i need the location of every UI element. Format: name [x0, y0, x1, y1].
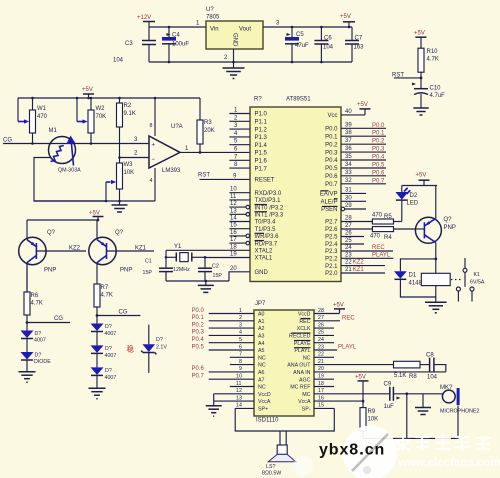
svg-text:VccD: VccD: [298, 312, 311, 318]
svg-text:NC: NC: [258, 385, 266, 391]
svg-text:18: 18: [230, 244, 237, 250]
ground mic: [415, 394, 431, 415]
svg-text:7805: 7805: [206, 15, 220, 21]
svg-text:XTAL1: XTAL1: [255, 256, 274, 262]
svg-text:6V/5A: 6V/5A: [470, 280, 485, 286]
svg-text:MICROPHONE2: MICROPHONE2: [440, 409, 479, 415]
svg-text:XTAL2: XTAL2: [255, 249, 274, 255]
capacitor C4: [162, 26, 189, 64]
svg-text:P0.4: P0.4: [372, 155, 385, 161]
svg-text:20K: 20K: [204, 128, 215, 134]
red net labels P0.0-P0.7: [372, 123, 385, 185]
svg-text:12: 12: [230, 201, 237, 207]
svg-text:P0.0: P0.0: [192, 308, 205, 314]
potentiometer W3 10K: [117, 156, 135, 201]
svg-text:D?: D?: [35, 353, 42, 359]
svg-text:C2: C2: [212, 264, 219, 270]
svg-text:P0.2: P0.2: [192, 322, 205, 328]
svg-text:C5: C5: [296, 32, 304, 38]
svg-text:VccD: VccD: [258, 392, 271, 398]
svg-text:100uF: 100uF: [172, 42, 189, 48]
svg-text:P0.2: P0.2: [325, 142, 338, 148]
wire XTAL1 pin19: [205, 257, 250, 259]
svg-text:P0.5: P0.5: [372, 163, 385, 169]
svg-text:A6: A6: [258, 370, 265, 376]
svg-text:4: 4: [150, 178, 153, 184]
op-amp U?A LM393: [134, 97, 189, 201]
svg-text:C6: C6: [324, 36, 332, 42]
svg-text:15: 15: [318, 403, 324, 409]
svg-text:TXD/P3.1: TXD/P3.1: [255, 198, 282, 204]
svg-text:R2: R2: [124, 103, 132, 109]
svg-text:R6: R6: [31, 293, 39, 299]
power +5V mic section: [355, 375, 369, 403]
svg-text:36: 36: [345, 146, 352, 152]
svg-text:P0.3: P0.3: [192, 330, 205, 336]
svg-text:KZ1: KZ1: [135, 246, 147, 252]
svg-text:PLAYL: PLAYL: [294, 348, 310, 354]
svg-text:10K: 10K: [368, 417, 379, 423]
resistor R8 5.1K: [394, 361, 430, 380]
svg-text:C8: C8: [426, 353, 434, 359]
svg-text:INT0 /P3.2: INT0 /P3.2: [255, 205, 284, 211]
svg-text:23: 23: [318, 344, 324, 350]
svg-text:P1.5: P1.5: [255, 151, 268, 157]
svg-text:−: −: [152, 157, 156, 163]
watermark small white circle: [293, 456, 313, 476]
svg-text:P0.4: P0.4: [192, 337, 205, 343]
svg-text:R9: R9: [368, 409, 376, 415]
svg-text:23: 23: [345, 252, 352, 258]
wire op-amp output to MCU pin6: [180, 151, 250, 153]
svg-text:5.1K: 5.1K: [394, 373, 406, 379]
wire emitter rail: [27, 219, 98, 221]
svg-text:4.7K: 4.7K: [101, 293, 113, 299]
wire 7805 gnd pin: [233, 49, 235, 62]
svg-text:WR/P3.6: WR/P3.6: [255, 234, 280, 240]
svg-text:C9: C9: [384, 382, 392, 388]
svg-text:REC: REC: [299, 319, 310, 325]
svg-text:P0.6: P0.6: [325, 174, 338, 180]
svg-text:C4: C4: [172, 33, 180, 39]
svg-text:39: 39: [345, 122, 352, 128]
svg-text:8Ω0.5W: 8Ω0.5W: [262, 471, 281, 477]
svg-text:K1: K1: [474, 272, 481, 278]
svg-text:JP7: JP7: [255, 301, 266, 307]
svg-text:W3: W3: [124, 162, 134, 168]
svg-text:20: 20: [318, 366, 324, 372]
microphone MK? MICROPHONE2: [440, 385, 479, 415]
svg-text:11: 11: [230, 194, 237, 200]
svg-text:29: 29: [345, 203, 352, 209]
resistor R9 10K: [360, 401, 378, 438]
svg-text:GND: GND: [255, 270, 269, 276]
svg-text:EA/VP: EA/VP: [320, 192, 338, 198]
svg-text:4007: 4007: [105, 375, 117, 381]
svg-text:LED: LED: [407, 201, 419, 207]
diode D1 4148: [394, 271, 436, 297]
resistor R6 4.7K: [24, 263, 43, 331]
svg-text:P0.2: P0.2: [372, 139, 385, 145]
svg-text:A4: A4: [258, 341, 265, 347]
svg-text:P0.0: P0.0: [325, 127, 338, 133]
svg-text:104: 104: [427, 375, 438, 381]
svg-text:12: 12: [236, 388, 242, 394]
svg-text:W1: W1: [37, 106, 47, 112]
capacitor C3: [113, 27, 156, 64]
svg-text:+5V: +5V: [357, 102, 368, 108]
isd left pin labels: [258, 312, 271, 413]
svg-text:PLAYE: PLAYE: [294, 341, 311, 347]
wire +5V top rail right: [402, 185, 437, 187]
regulator U? 7805: [196, 7, 280, 61]
svg-text:+5V: +5V: [414, 31, 425, 37]
svg-text:P0.6: P0.6: [192, 366, 205, 372]
svg-text:A0: A0: [258, 312, 265, 318]
svg-text:P1.2: P1.2: [255, 127, 268, 133]
svg-text:Q?: Q?: [444, 217, 453, 223]
svg-text:R4: R4: [384, 235, 392, 241]
svg-text:D?: D?: [105, 368, 112, 374]
diode D? 4007 #1 (right chain): [91, 324, 117, 346]
svg-text:8: 8: [150, 123, 153, 129]
svg-text:P0.3: P0.3: [325, 150, 338, 156]
svg-text:22: 22: [345, 260, 352, 266]
svg-text:P0.1: P0.1: [325, 134, 338, 140]
svg-text:DIODE: DIODE: [34, 359, 51, 365]
svg-text:16: 16: [318, 395, 324, 401]
svg-text:稳: 稳: [127, 344, 135, 354]
svg-text:32: 32: [345, 178, 352, 184]
watermark elecfans white logo text: [396, 435, 500, 469]
ground right diode chain: [89, 388, 106, 399]
svg-text:470: 470: [372, 213, 383, 219]
capacitor C10 4.7uF: [412, 83, 445, 109]
svg-text:SP-: SP-: [302, 407, 311, 413]
svg-text:16: 16: [230, 230, 237, 236]
svg-text:A1: A1: [258, 319, 265, 325]
diode D? 4007 (left chain): [21, 331, 46, 353]
svg-text:D?: D?: [156, 337, 163, 343]
power +5V rst: [414, 31, 426, 49]
svg-text:P0.7: P0.7: [372, 178, 385, 184]
svg-text:PLAYL: PLAYL: [338, 345, 357, 351]
resistor R4 470: [370, 227, 415, 241]
svg-text:37: 37: [345, 138, 352, 144]
svg-text:11: 11: [236, 381, 242, 387]
potentiometer W1 470: [18, 97, 48, 144]
svg-text:C10: C10: [430, 86, 442, 92]
svg-text:15: 15: [230, 223, 237, 229]
svg-text:PNP: PNP: [444, 225, 456, 231]
svg-text:19: 19: [318, 374, 324, 380]
wire XTAL2 pin18: [166, 249, 250, 251]
wire comparator top bus: [18, 97, 200, 99]
svg-text:www.elecfans.com: www.elecfans.com: [397, 457, 500, 469]
diode D? 4007 #3 (right chain): [91, 367, 117, 388]
svg-text:AGC: AGC: [299, 377, 311, 383]
wire bottom bus top section: [149, 61, 352, 63]
svg-text:27: 27: [318, 315, 324, 321]
power +5V transistors: [89, 211, 104, 221]
svg-text:MC: MC: [302, 392, 310, 398]
ground below relay: [425, 302, 447, 313]
svg-text:U?A: U?A: [171, 124, 183, 130]
svg-text:KZ1: KZ1: [353, 267, 365, 273]
svg-text:13: 13: [236, 395, 242, 401]
zener diode D? 2.1V: [127, 325, 168, 373]
capacitor C2 15P: [198, 256, 222, 281]
svg-text:P1.1: P1.1: [255, 120, 268, 126]
svg-text:14: 14: [230, 216, 237, 222]
svg-text:ANA OUT: ANA OUT: [287, 363, 311, 369]
wire mic bias loop: [363, 392, 458, 438]
svg-text:20: 20: [230, 266, 237, 272]
svg-text:ALE/P: ALE/P: [320, 200, 337, 206]
node CG left chain: [26, 316, 70, 324]
svg-text:ISD1110: ISD1110: [256, 418, 279, 424]
svg-text:INT1 /P3.3: INT1 /P3.3: [255, 213, 284, 219]
svg-text:P1.4: P1.4: [255, 143, 268, 149]
capacitor C9 1uF: [384, 382, 445, 411]
svg-text:R3: R3: [204, 120, 212, 126]
resistor R2 9.1K: [117, 97, 136, 163]
svg-text:A3: A3: [258, 334, 265, 340]
svg-text:P0.0: P0.0: [372, 123, 385, 129]
svg-text:RXD/P3.0: RXD/P3.0: [255, 191, 282, 197]
svg-text:ybx8.cn: ybx8.cn: [319, 440, 385, 459]
ground below 7805: [223, 61, 245, 79]
mcu left pin stubs and numbers: [229, 108, 250, 272]
svg-text:PSEN: PSEN: [321, 207, 337, 213]
svg-text:40: 40: [345, 109, 352, 115]
ground isd vcc pins: [206, 394, 222, 416]
svg-text:4.7uF: 4.7uF: [430, 93, 446, 99]
svg-text:4148: 4148: [409, 281, 423, 287]
svg-text:NC: NC: [258, 363, 266, 369]
svg-text:MC REF: MC REF: [290, 385, 311, 391]
resistor R3 20K: [197, 98, 215, 154]
svg-text:P0.5: P0.5: [325, 166, 338, 172]
svg-text:3: 3: [239, 322, 242, 328]
svg-text:T0/P3.4: T0/P3.4: [255, 220, 277, 226]
svg-text:M1: M1: [49, 128, 58, 134]
svg-text:21: 21: [318, 359, 324, 365]
svg-text:CG: CG: [119, 310, 128, 316]
svg-text:P0.1: P0.1: [372, 131, 385, 137]
mcu right pin labels: [320, 113, 338, 277]
svg-text:47uF: 47uF: [295, 43, 309, 49]
svg-text:104: 104: [113, 58, 124, 64]
svg-text:P0.7: P0.7: [192, 374, 205, 380]
svg-text:Vin: Vin: [210, 27, 219, 33]
svg-text:T1/P3.5: T1/P3.5: [255, 227, 277, 233]
svg-text:P1.7: P1.7: [255, 166, 268, 172]
isd left pin stubs, numbers, red P0 labels: [192, 308, 255, 409]
svg-text:2.1V: 2.1V: [156, 345, 167, 351]
svg-text:RESET: RESET: [255, 178, 275, 184]
ic U? AT89S51 body: [250, 97, 341, 282]
svg-text:12MHz: 12MHz: [173, 267, 190, 273]
svg-text:+5V: +5V: [82, 87, 93, 93]
transistor Q? PNP KZ2: [19, 220, 86, 292]
svg-text:+: +: [152, 143, 156, 149]
svg-text:24: 24: [345, 245, 352, 251]
diode D? 4007 #2 (right chain): [91, 345, 117, 367]
svg-text:14: 14: [236, 403, 242, 409]
svg-text:VccA: VccA: [298, 399, 311, 405]
resistor R7 4.7K: [94, 284, 113, 324]
svg-text:NC: NC: [303, 355, 311, 361]
svg-text:P2.1: P2.1: [325, 264, 338, 270]
power +5V mcu pin40: [357, 102, 371, 115]
svg-text:P2.2: P2.2: [325, 257, 338, 263]
wire crystal ground rail: [166, 280, 229, 282]
svg-text:4: 4: [239, 330, 242, 336]
svg-text:P2.4: P2.4: [325, 242, 338, 248]
capacitor C1 15P: [143, 250, 174, 281]
mcu right pin stubs and numbers: [341, 109, 394, 273]
svg-text:D?: D?: [35, 331, 42, 337]
wire M1 bottom loop to W3 wiper: [34, 158, 116, 202]
node RST to MCU pin9: [198, 173, 250, 180]
svg-text:470: 470: [37, 114, 48, 120]
ground crystal: [198, 280, 214, 293]
power +5V isd pin28: [333, 303, 345, 314]
svg-text:A7: A7: [258, 377, 265, 383]
mcu left pin labels: [255, 112, 284, 276]
capacitor C6: [314, 26, 333, 64]
svg-text:+5V: +5V: [416, 173, 427, 179]
svg-text:163: 163: [354, 45, 365, 51]
svg-text:PLAYL: PLAYL: [372, 252, 391, 258]
svg-text:LM393: LM393: [162, 168, 181, 174]
svg-text:C7: C7: [355, 36, 363, 42]
svg-text:REC: REC: [372, 245, 385, 251]
node RST top right: [392, 73, 422, 80]
photoresistor M1 QM-303A: [49, 128, 82, 174]
ground below W3: [112, 201, 128, 212]
svg-text:104: 104: [323, 45, 334, 51]
svg-text:P2.6: P2.6: [325, 227, 338, 233]
potentiometer W2 70K: [76, 97, 106, 144]
svg-text:XCLK: XCLK: [297, 326, 311, 332]
svg-text:4.7K: 4.7K: [427, 57, 439, 63]
svg-text:GND: GND: [232, 33, 238, 47]
relay K1 coil: [421, 273, 461, 302]
svg-text:10K: 10K: [124, 170, 135, 176]
svg-text:P1.3: P1.3: [255, 135, 268, 141]
svg-text:6: 6: [239, 344, 242, 350]
svg-text:D1: D1: [409, 273, 417, 279]
svg-text:D?: D?: [105, 324, 112, 330]
svg-text:P2.5: P2.5: [325, 235, 338, 241]
svg-text:QM-303A: QM-303A: [58, 168, 81, 174]
svg-text:1: 1: [239, 308, 242, 314]
wire 7805 out bus: [263, 26, 352, 28]
resistor R5 470: [372, 213, 402, 225]
svg-text:15P: 15P: [143, 270, 153, 276]
svg-text:A2: A2: [258, 326, 265, 332]
svg-text:P1.0: P1.0: [255, 112, 268, 118]
svg-text:ANA IN: ANA IN: [293, 370, 311, 376]
svg-text:C3: C3: [125, 41, 133, 47]
svg-text:70K: 70K: [96, 114, 107, 120]
svg-text:25: 25: [345, 238, 352, 244]
isd right pin labels: [287, 312, 311, 413]
svg-text:4007: 4007: [105, 331, 117, 337]
svg-text:+5V: +5V: [340, 14, 351, 20]
svg-text:28: 28: [345, 216, 352, 222]
svg-text:CG: CG: [3, 138, 12, 144]
power +5V relay section: [416, 173, 430, 186]
svg-text:Q?: Q?: [47, 230, 56, 236]
svg-text:AT89S51: AT89S51: [286, 97, 311, 103]
svg-text:26: 26: [345, 231, 352, 237]
svg-text:Vout: Vout: [239, 27, 251, 33]
capacitor C7: [345, 27, 364, 62]
wire SP+ loop to speaker: [235, 408, 334, 431]
wire junction to D1 loop: [434, 258, 437, 261]
svg-text:P0.4: P0.4: [325, 158, 338, 164]
crystal Y1 12MHz: [166, 244, 205, 273]
svg-text:P2.3: P2.3: [325, 249, 338, 255]
svg-text:D?: D?: [105, 346, 112, 352]
svg-text:SP+: SP+: [258, 407, 268, 413]
svg-text:U?: U?: [206, 7, 214, 13]
isd right pin stubs and numbers: [314, 308, 446, 409]
svg-text:22: 22: [318, 352, 324, 358]
svg-text:C1: C1: [145, 259, 152, 265]
svg-text:Q?: Q?: [115, 230, 124, 236]
svg-text:4007: 4007: [105, 353, 117, 359]
svg-text:30: 30: [345, 195, 352, 201]
svg-text:+5V: +5V: [355, 375, 366, 381]
svg-text:25: 25: [318, 330, 324, 336]
svg-text:5: 5: [239, 337, 242, 343]
svg-text:RD/P3.7: RD/P3.7: [255, 241, 278, 247]
svg-text:P0.3: P0.3: [372, 147, 385, 153]
svg-text:REC: REC: [342, 315, 355, 321]
svg-text:P0.7: P0.7: [325, 182, 338, 188]
svg-text:P0.5: P0.5: [192, 344, 205, 350]
svg-text:10: 10: [230, 187, 237, 193]
svg-text:P2.0: P2.0: [325, 271, 338, 277]
svg-text:15P: 15P: [213, 273, 223, 279]
wire top bus 12V: [149, 26, 206, 28]
svg-text:LS?: LS?: [266, 464, 275, 470]
svg-text:R7: R7: [101, 285, 109, 291]
svg-text:38: 38: [345, 130, 352, 136]
svg-text:9: 9: [239, 366, 242, 372]
svg-text:33: 33: [345, 170, 352, 176]
svg-text:24: 24: [318, 337, 324, 343]
capacitor C5: [285, 26, 309, 64]
svg-text:R8: R8: [409, 374, 417, 380]
ground left diode chain: [19, 372, 36, 383]
watermark white circle: [343, 426, 398, 478]
svg-text:19: 19: [230, 252, 237, 258]
ground below C10: [413, 108, 428, 115]
svg-text:PNP: PNP: [120, 268, 132, 274]
svg-text:KZ2: KZ2: [69, 246, 81, 252]
svg-text:P0.1: P0.1: [192, 315, 205, 321]
ic JP7 ISD1110 body: [254, 301, 314, 424]
svg-text:R?: R?: [254, 97, 262, 103]
svg-text:28: 28: [318, 308, 324, 314]
svg-text:1uF: 1uF: [384, 404, 395, 410]
svg-text:8: 8: [239, 359, 242, 365]
